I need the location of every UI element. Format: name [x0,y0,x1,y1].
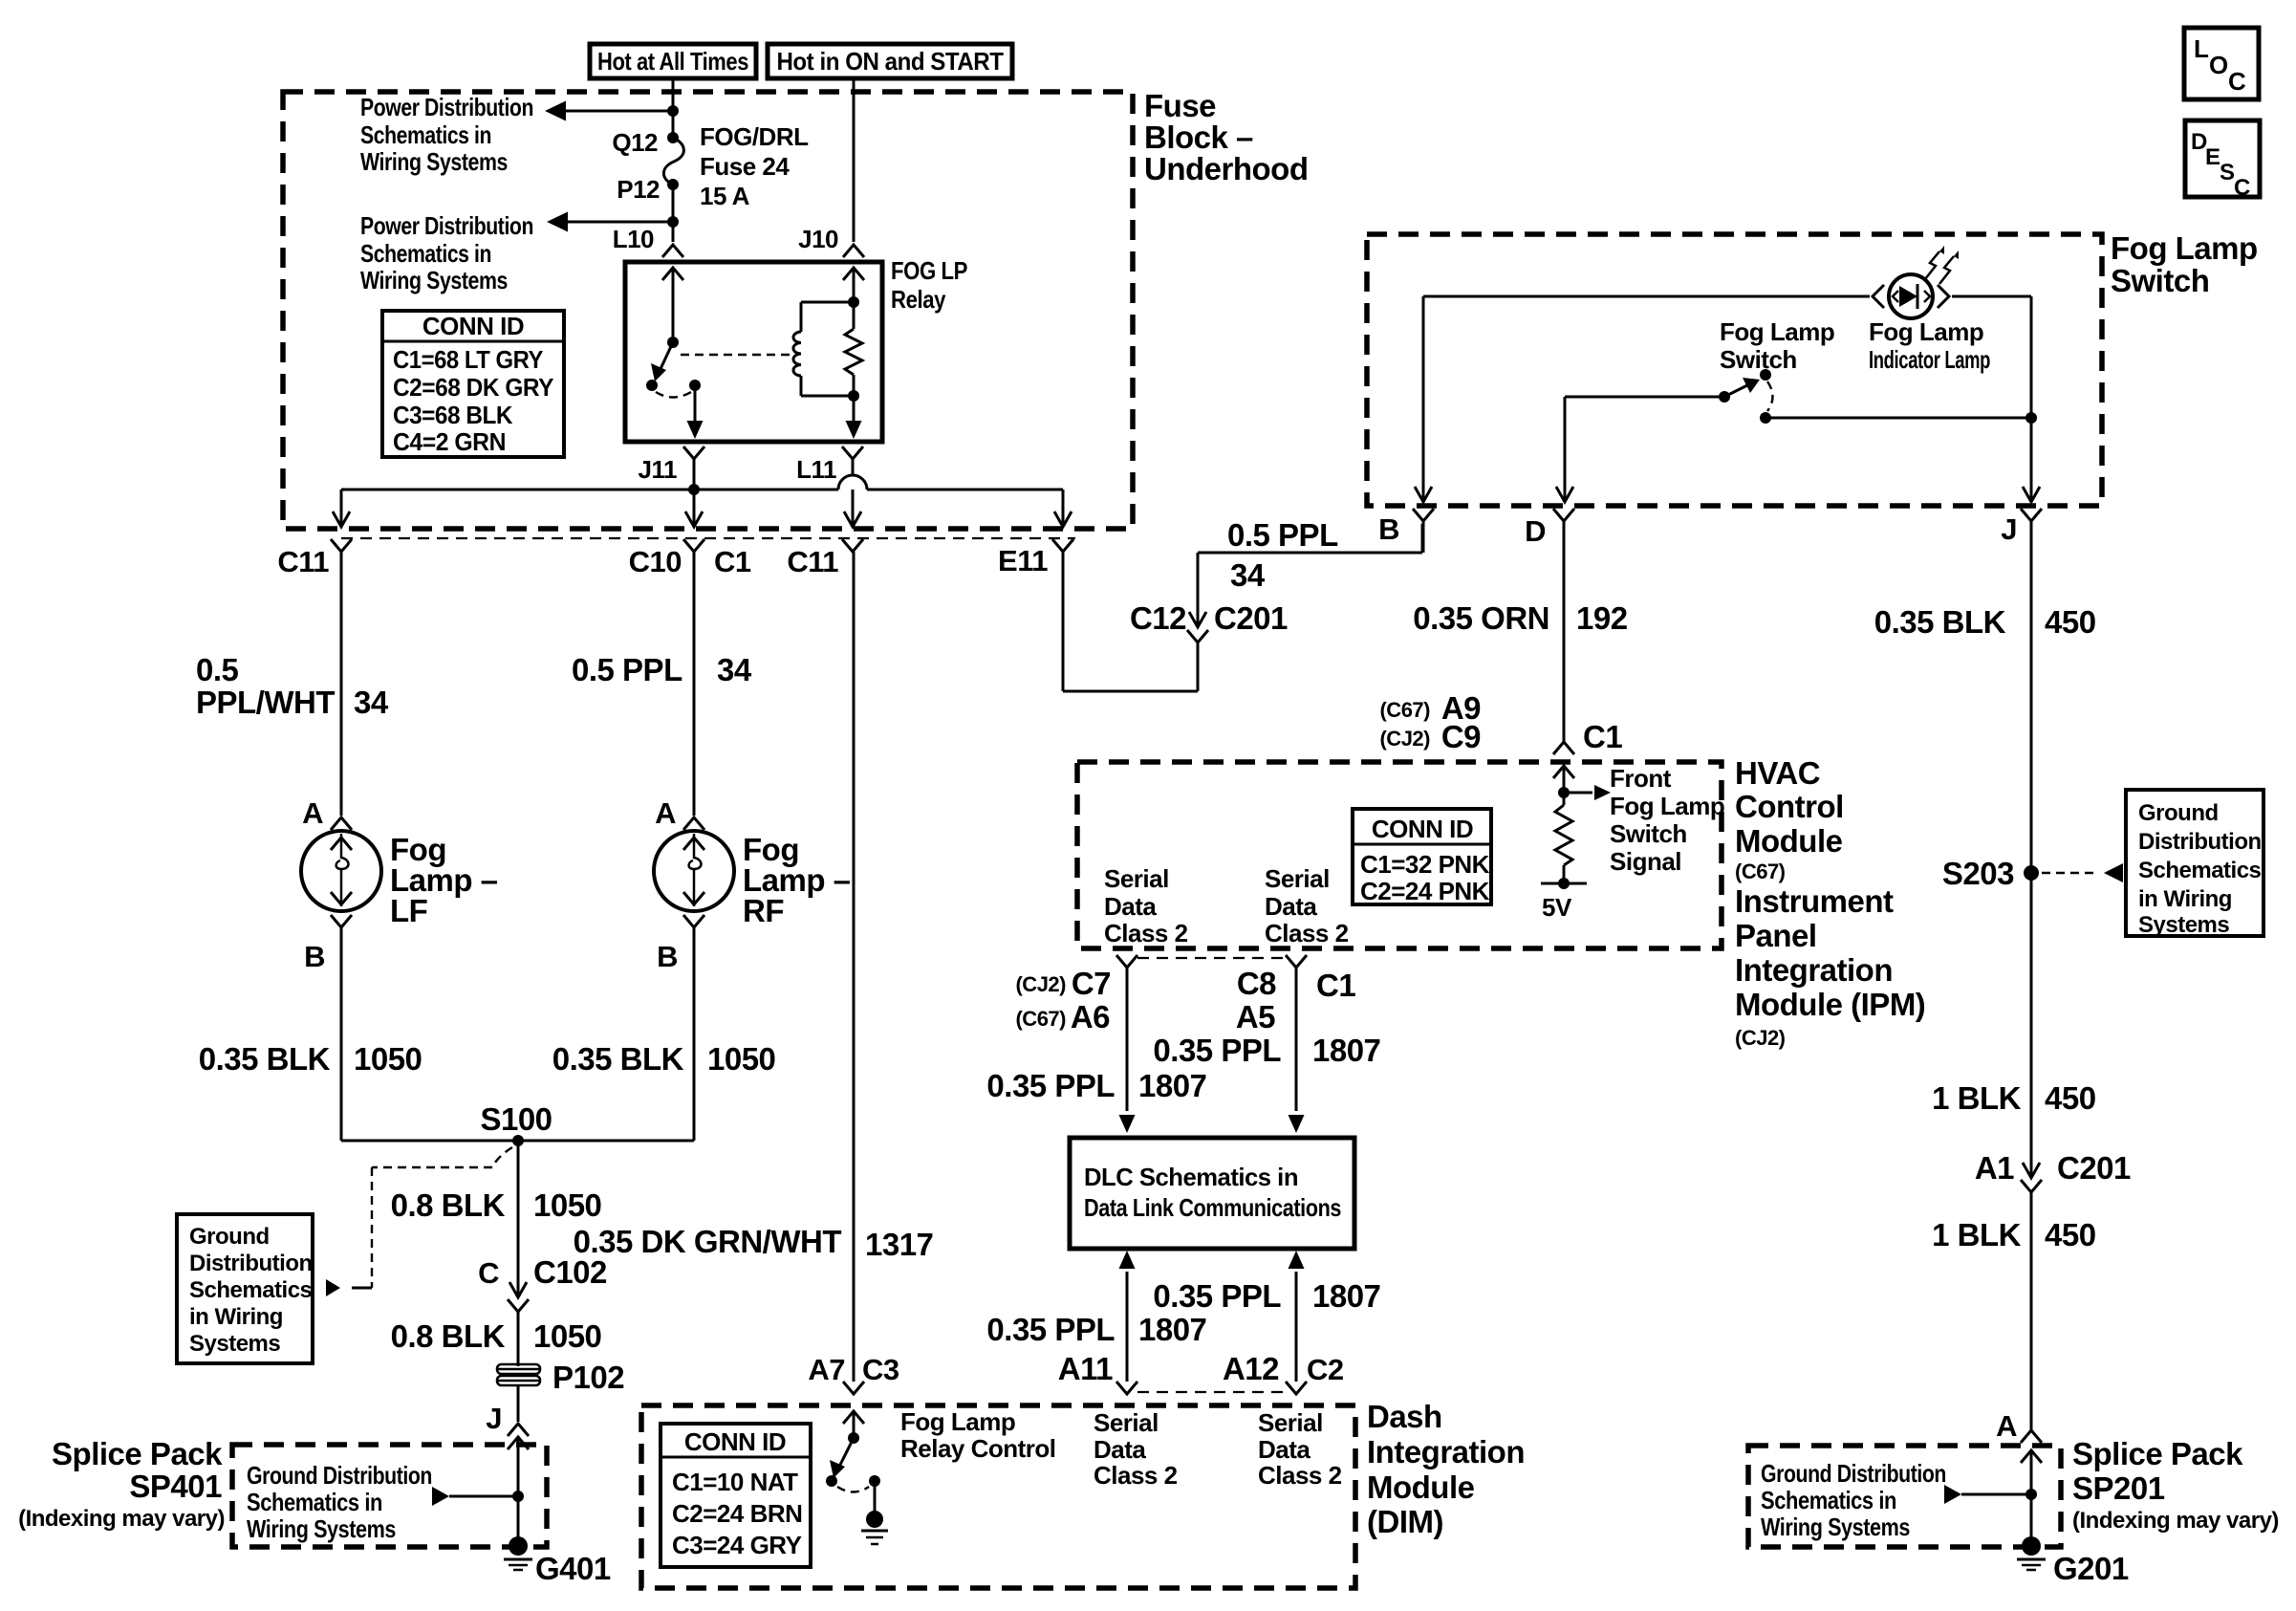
svg-text:(Indexing may vary): (Indexing may vary) [2072,1508,2279,1534]
svg-text:450: 450 [2045,604,2096,640]
svg-text:Wiring Systems: Wiring Systems [360,266,508,294]
svg-text:S: S [2220,160,2235,185]
svg-text:Relay: Relay [891,285,946,314]
svg-text:C1: C1 [1316,968,1355,1003]
svg-text:Schematics in: Schematics in [360,120,491,149]
svg-text:B: B [304,940,325,973]
svg-text:1050: 1050 [707,1041,775,1077]
svg-text:Class 2: Class 2 [1104,919,1188,947]
svg-text:0.35 PPL: 0.35 PPL [1153,1033,1281,1068]
svg-text:A7: A7 [808,1353,845,1386]
svg-text:in Wiring: in Wiring [189,1304,283,1330]
svg-text:0.5 PPL: 0.5 PPL [572,652,682,687]
svg-text:Splice Pack: Splice Pack [2072,1436,2243,1471]
svg-text:C1: C1 [1583,719,1622,754]
svg-text:1807: 1807 [1138,1068,1206,1103]
svg-text:C10: C10 [629,545,682,578]
svg-text:C3=68 BLK: C3=68 BLK [393,401,513,429]
svg-text:0.8 BLK: 0.8 BLK [391,1187,506,1223]
svg-text:1807: 1807 [1312,1278,1380,1314]
svg-text:A: A [1996,1409,2017,1443]
svg-text:SP201: SP201 [2072,1470,2165,1506]
svg-text:34: 34 [354,685,389,720]
svg-text:Schematics in: Schematics in [247,1488,382,1516]
svg-text:Ground Distribution: Ground Distribution [247,1461,432,1490]
svg-text:Fog Lamp: Fog Lamp [1720,317,1834,346]
svg-text:RF: RF [743,893,784,928]
svg-text:E: E [2205,144,2220,170]
svg-text:Relay Control: Relay Control [900,1434,1056,1463]
svg-text:C1=68 LT GRY: C1=68 LT GRY [393,345,543,374]
svg-text:Schematics in: Schematics in [360,239,491,268]
svg-text:C2=68 DK GRY: C2=68 DK GRY [393,373,553,402]
svg-text:Systems: Systems [189,1331,280,1357]
svg-text:Wiring Systems: Wiring Systems [360,147,508,176]
svg-text:450: 450 [2045,1080,2096,1116]
svg-text:HVAC: HVAC [1735,755,1820,791]
svg-text:C9: C9 [1441,719,1481,754]
svg-text:C102: C102 [533,1254,607,1290]
svg-text:C11: C11 [277,545,329,578]
svg-text:(C67): (C67) [1735,860,1786,883]
svg-text:Module: Module [1735,823,1843,859]
svg-text:0.5 PPL: 0.5 PPL [1227,517,1338,553]
svg-text:Q12: Q12 [612,128,658,157]
svg-text:Class 2: Class 2 [1258,1461,1342,1490]
svg-text:1807: 1807 [1312,1033,1380,1068]
svg-text:C1: C1 [714,545,751,578]
svg-text:0.35 BLK: 0.35 BLK [1874,604,2006,640]
svg-text:Ground: Ground [2138,800,2219,826]
svg-text:0.35 PPL: 0.35 PPL [1153,1278,1281,1314]
svg-text:C201: C201 [1214,600,1288,636]
svg-text:Fuse 24: Fuse 24 [700,152,790,181]
svg-text:1050: 1050 [533,1187,601,1223]
svg-text:0.35 BLK: 0.35 BLK [552,1041,684,1077]
svg-text:Power Distribution: Power Distribution [360,93,533,121]
svg-text:E11: E11 [998,544,1048,577]
svg-text:Instrument: Instrument [1735,883,1894,919]
svg-text:Module (IPM): Module (IPM) [1735,987,1925,1022]
svg-text:S203: S203 [1942,856,2014,891]
svg-text:Schematics: Schematics [189,1277,313,1303]
svg-text:DLC Schematics in: DLC Schematics in [1084,1163,1298,1191]
svg-text:Schematics: Schematics [2138,858,2262,883]
svg-text:0.5: 0.5 [196,652,239,687]
svg-text:192: 192 [1576,600,1628,636]
svg-text:0.35 BLK: 0.35 BLK [199,1041,331,1077]
svg-text:SP401: SP401 [129,1469,222,1504]
svg-text:1050: 1050 [533,1318,601,1354]
svg-text:Block –: Block – [1144,120,1253,155]
svg-text:C2=24 BRN: C2=24 BRN [672,1499,802,1528]
svg-text:Fog Lamp: Fog Lamp [2111,230,2258,266]
svg-text:C: C [2234,175,2250,201]
svg-text:Switch: Switch [1720,345,1797,374]
svg-text:(C67): (C67) [1379,698,1430,722]
svg-text:Front: Front [1610,764,1672,793]
svg-text:0.35 DK GRN/WHT: 0.35 DK GRN/WHT [574,1224,842,1259]
svg-text:(C67): (C67) [1015,1007,1066,1031]
svg-text:Fog Lamp: Fog Lamp [1869,317,1983,346]
svg-text:Signal: Signal [1610,847,1681,876]
svg-text:Class 2: Class 2 [1265,919,1349,947]
svg-text:CONN ID: CONN ID [684,1427,786,1456]
svg-text:J: J [2001,512,2017,546]
svg-text:C12: C12 [1130,600,1186,636]
svg-text:Distribution: Distribution [189,1251,313,1276]
svg-text:Dash: Dash [1367,1399,1442,1434]
svg-text:Power Distribution: Power Distribution [360,211,533,240]
svg-text:O: O [2209,51,2228,79]
svg-text:1 BLK: 1 BLK [1932,1080,2022,1116]
svg-text:L: L [2194,34,2209,63]
svg-text:Data: Data [1094,1435,1146,1464]
svg-text:Data: Data [1265,892,1317,921]
svg-text:Hot at All Times: Hot at All Times [597,47,748,76]
svg-text:A11: A11 [1058,1351,1113,1386]
svg-text:15 A: 15 A [700,182,750,210]
svg-text:(DIM): (DIM) [1367,1504,1443,1539]
svg-text:Integration: Integration [1735,952,1893,988]
svg-text:J: J [486,1402,502,1435]
svg-text:Data: Data [1104,892,1157,921]
svg-text:Underhood: Underhood [1144,151,1308,186]
svg-text:(CJ2): (CJ2) [1735,1026,1786,1050]
svg-text:Data: Data [1258,1435,1310,1464]
svg-text:Schematics in: Schematics in [1761,1486,1896,1514]
svg-text:A: A [302,796,323,830]
svg-text:P102: P102 [552,1360,624,1395]
svg-text:A6: A6 [1071,999,1110,1034]
svg-text:Serial: Serial [1104,864,1169,893]
svg-text:B: B [1378,512,1399,546]
svg-text:CONN ID: CONN ID [422,312,524,340]
svg-text:0.35 PPL: 0.35 PPL [986,1068,1115,1103]
svg-text:Serial: Serial [1258,1408,1323,1437]
svg-text:Serial: Serial [1265,864,1330,893]
svg-text:Systems: Systems [2138,912,2229,938]
svg-text:0.35 PPL: 0.35 PPL [986,1312,1115,1347]
svg-text:Ground: Ground [189,1224,270,1250]
svg-text:C2: C2 [1307,1353,1344,1386]
svg-text:C8: C8 [1237,966,1276,1001]
svg-text:0.8 BLK: 0.8 BLK [391,1318,506,1354]
svg-text:L10: L10 [613,225,654,253]
svg-text:Ground Distribution: Ground Distribution [1761,1459,1946,1488]
svg-text:C4=2 GRN: C4=2 GRN [393,427,506,456]
svg-text:A5: A5 [1236,999,1275,1034]
svg-text:Data Link Communications: Data Link Communications [1084,1193,1341,1222]
svg-text:Wiring Systems: Wiring Systems [247,1514,396,1543]
svg-text:34: 34 [1230,557,1266,593]
svg-text:(Indexing may vary): (Indexing may vary) [18,1506,225,1532]
svg-text:(CJ2): (CJ2) [1379,727,1430,751]
svg-text:Module: Module [1367,1469,1475,1505]
svg-text:Control: Control [1735,789,1844,824]
svg-text:C1=10 NAT: C1=10 NAT [672,1468,798,1496]
svg-text:Distribution: Distribution [2138,829,2262,855]
svg-text:Panel: Panel [1735,918,1817,953]
svg-text:Fog Lamp: Fog Lamp [1610,792,1724,820]
svg-text:Splice Pack: Splice Pack [52,1436,223,1471]
svg-text:Fog Lamp: Fog Lamp [900,1407,1015,1436]
svg-text:Wiring Systems: Wiring Systems [1761,1513,1910,1541]
svg-text:in Wiring: in Wiring [2138,886,2232,912]
svg-text:P12: P12 [617,175,660,204]
svg-text:Switch: Switch [2111,263,2209,298]
svg-text:C3=24 GRY: C3=24 GRY [672,1531,802,1559]
svg-text:5V: 5V [1542,893,1572,922]
svg-text:C201: C201 [2057,1150,2131,1186]
svg-text:PPL/WHT: PPL/WHT [196,685,335,720]
svg-text:1807: 1807 [1138,1312,1206,1347]
svg-text:G401: G401 [535,1551,611,1586]
svg-text:450: 450 [2045,1217,2096,1252]
svg-text:C: C [2228,67,2246,96]
svg-text:FOG/DRL: FOG/DRL [700,122,809,151]
svg-text:A1: A1 [1975,1150,2014,1186]
svg-text:B: B [657,940,678,973]
svg-text:1317: 1317 [865,1227,933,1262]
svg-text:Indicator Lamp: Indicator Lamp [1869,345,1990,374]
svg-text:LF: LF [390,893,427,928]
svg-text:Hot in ON and START: Hot in ON and START [777,47,1005,76]
svg-text:C1=32 PNK: C1=32 PNK [1360,850,1490,879]
svg-text:Fuse: Fuse [1144,88,1216,123]
svg-text:1 BLK: 1 BLK [1932,1217,2022,1252]
svg-text:0.35 ORN: 0.35 ORN [1413,600,1549,636]
svg-text:D: D [1525,514,1546,548]
svg-text:Serial: Serial [1094,1408,1159,1437]
svg-text:FOG LP: FOG LP [891,256,967,285]
svg-text:G201: G201 [2053,1551,2129,1586]
svg-text:J11: J11 [639,455,677,484]
svg-text:Class 2: Class 2 [1094,1461,1178,1490]
svg-text:S100: S100 [480,1101,552,1137]
svg-text:C7: C7 [1072,966,1111,1001]
svg-text:34: 34 [717,652,752,687]
svg-text:A: A [655,796,676,830]
svg-text:Integration: Integration [1367,1434,1525,1469]
svg-text:C3: C3 [862,1353,899,1386]
svg-text:L11: L11 [796,455,836,484]
svg-text:Switch: Switch [1610,819,1687,848]
svg-text:1050: 1050 [354,1041,422,1077]
svg-text:C2=24 PNK: C2=24 PNK [1360,877,1490,905]
svg-text:J10: J10 [798,225,838,253]
svg-text:C11: C11 [787,545,838,578]
svg-text:CONN ID: CONN ID [1372,815,1473,843]
svg-text:A12: A12 [1223,1351,1279,1386]
svg-text:C: C [478,1256,499,1290]
svg-text:(CJ2): (CJ2) [1015,972,1066,996]
